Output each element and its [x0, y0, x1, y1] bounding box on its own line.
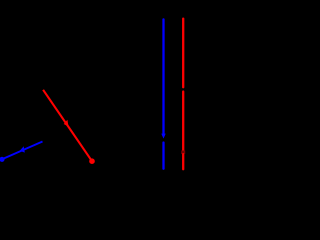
blue particle dot — [0, 157, 5, 162]
red worldline dark marker — [181, 151, 185, 154]
blue worldline (vertical) — [161, 19, 165, 168]
wire red worldline middle segment — [182, 92, 184, 151]
wire blue worldline upper segment — [162, 19, 164, 135]
blue direction arrowhead — [20, 146, 25, 152]
red photon trajectory (diagonal) — [43, 90, 95, 164]
blue worldline arrowhead — [161, 134, 165, 139]
wire red trajectory line — [43, 90, 92, 161]
blue particle trajectory (lower-left) — [0, 142, 42, 162]
red particle dot — [89, 158, 95, 164]
wire red worldline upper segment — [182, 19, 184, 88]
wire blue trajectory line — [2, 142, 43, 160]
wire red worldline lower segment — [182, 154, 184, 169]
wire blue worldline lower segment — [162, 143, 164, 169]
red direction arrowhead — [64, 120, 69, 127]
red worldline (vertical) — [181, 19, 185, 170]
